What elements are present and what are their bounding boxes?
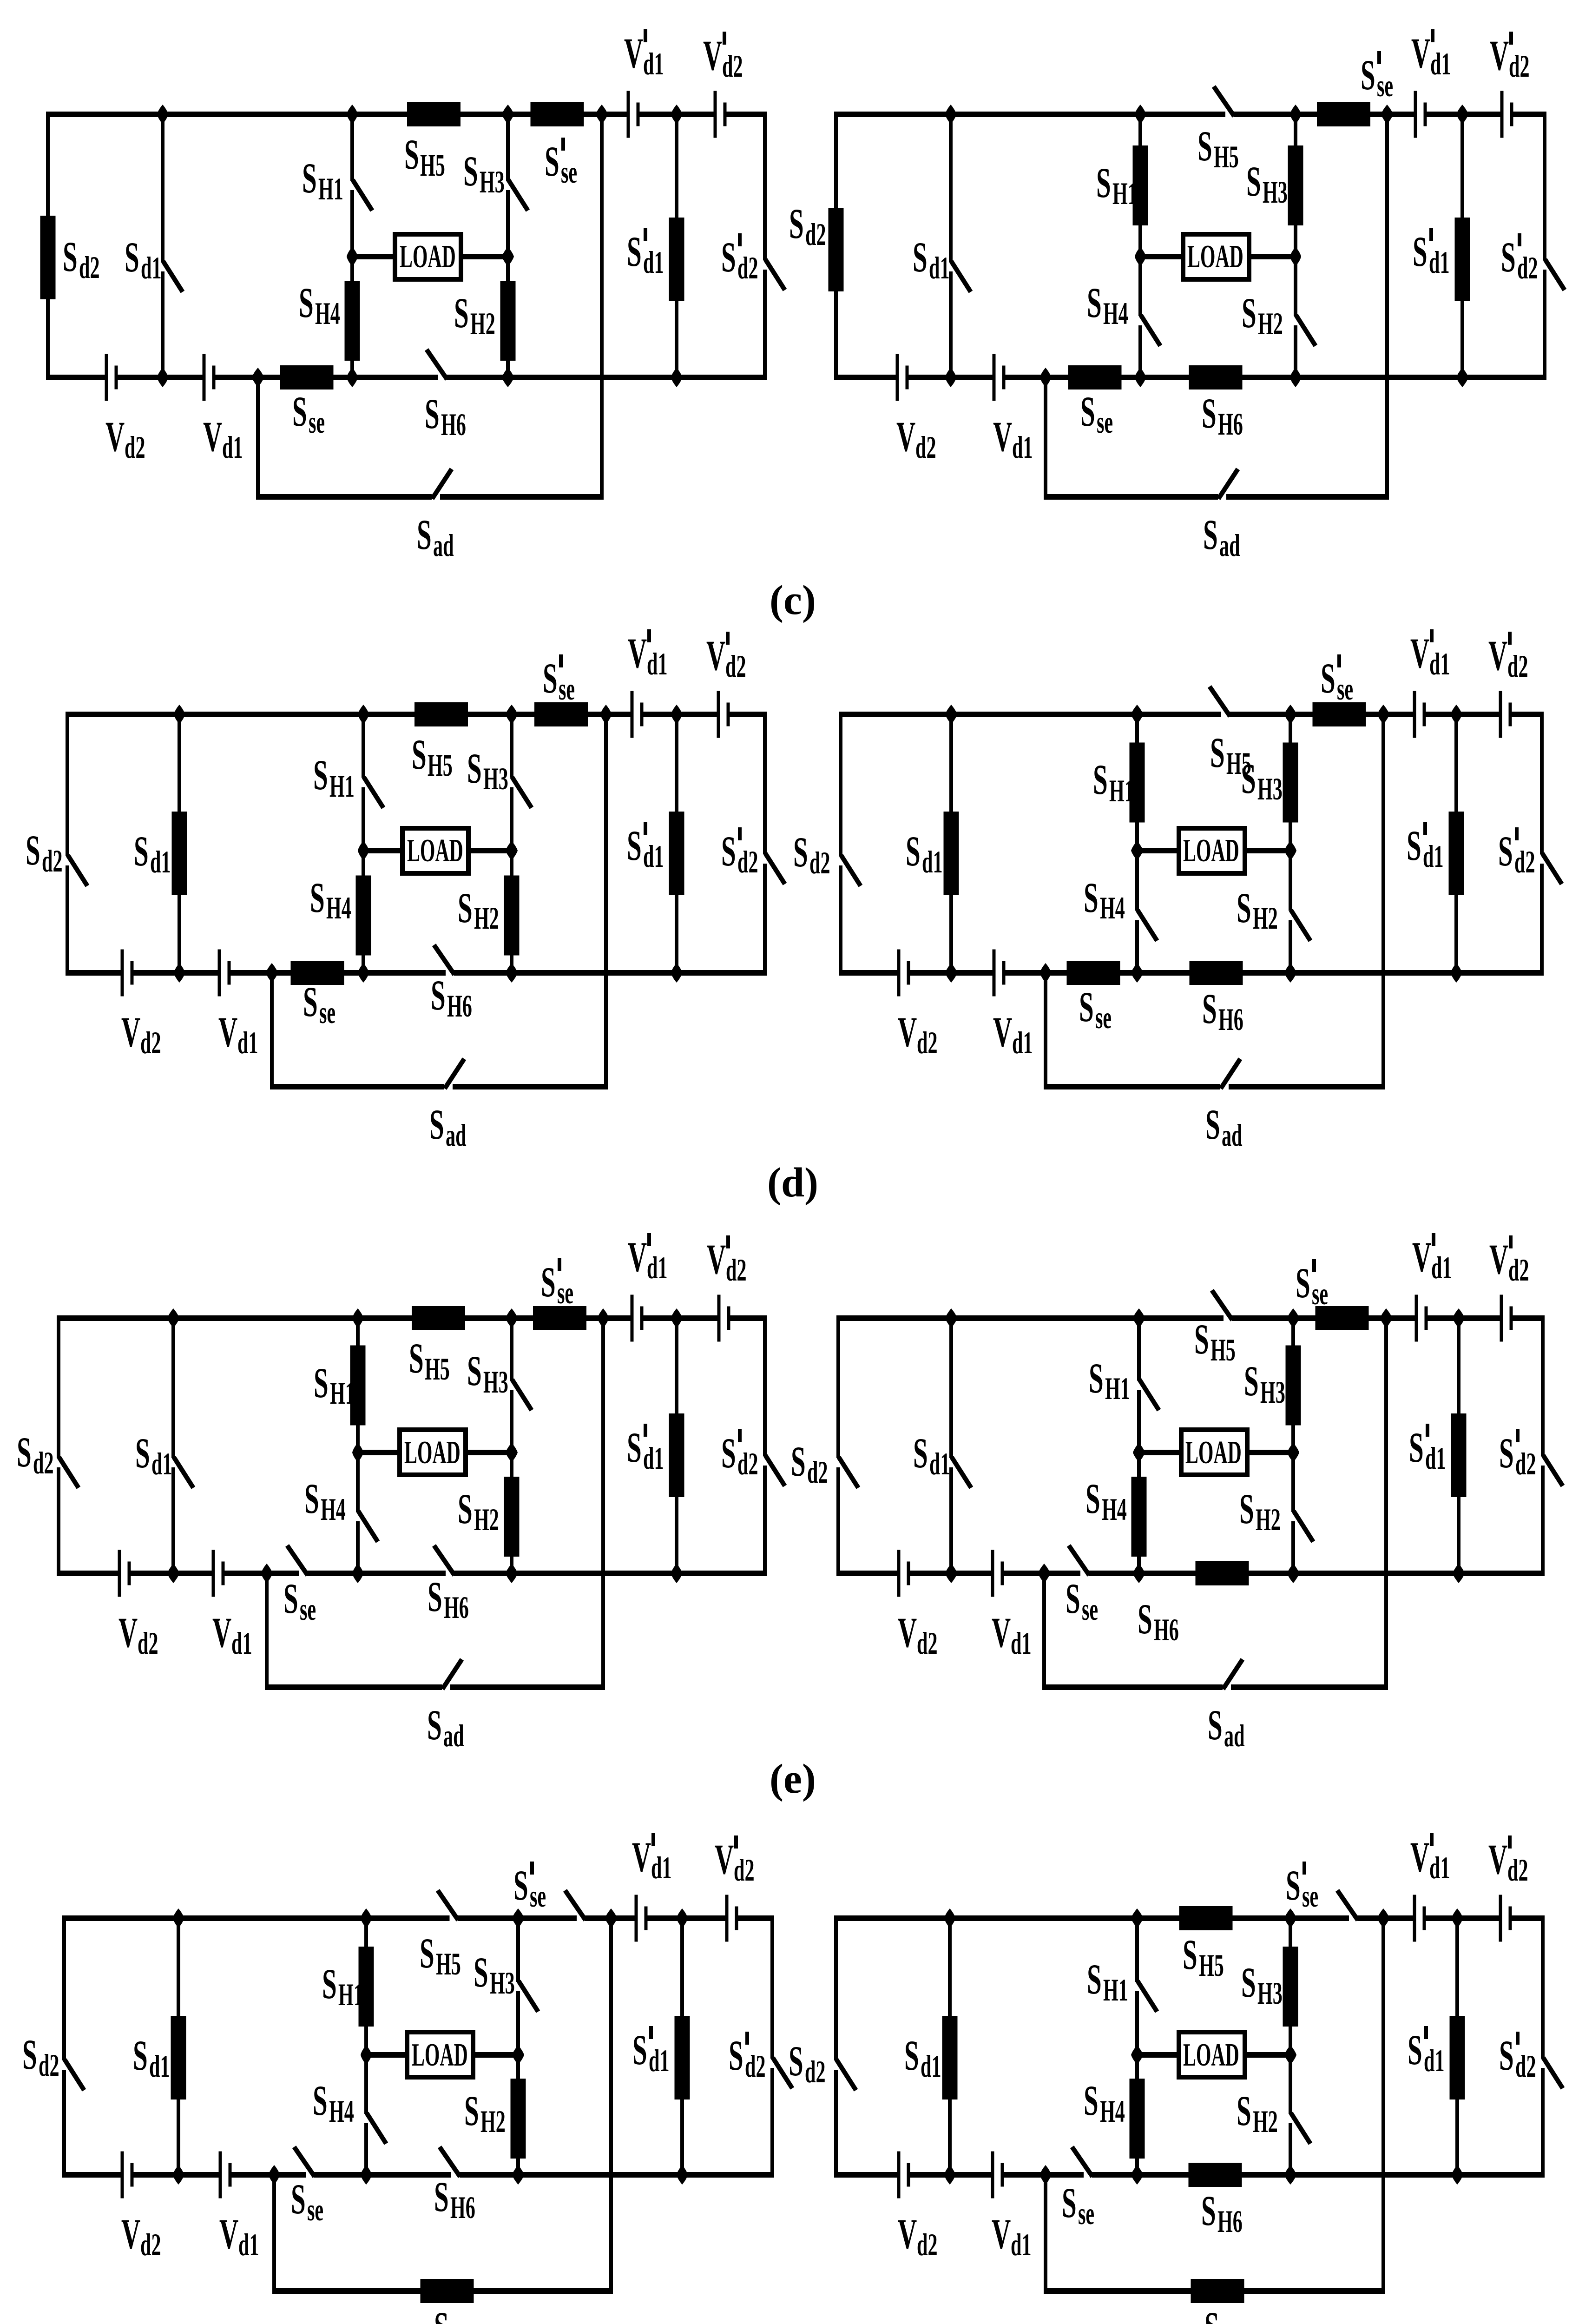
svg-text:d2: d2 xyxy=(140,1026,161,1061)
svg-text:LOAD: LOAD xyxy=(407,832,463,868)
svg-text:S: S xyxy=(1079,983,1094,1030)
svg-text:H3: H3 xyxy=(480,165,505,200)
svg-text:H4: H4 xyxy=(1100,891,1125,926)
svg-text:S: S xyxy=(543,654,558,702)
svg-text:d2: d2 xyxy=(737,251,758,286)
svg-text:S: S xyxy=(304,1475,319,1522)
svg-text:ad: ad xyxy=(1219,528,1240,563)
svg-text:d1: d1 xyxy=(1431,1251,1452,1286)
svg-text:H5: H5 xyxy=(1214,140,1239,175)
svg-text:S: S xyxy=(729,2032,743,2079)
svg-text:H6: H6 xyxy=(444,1591,469,1625)
svg-text:H1: H1 xyxy=(1112,177,1138,211)
svg-text:S: S xyxy=(431,971,446,1019)
svg-text:d2: d2 xyxy=(807,1455,828,1490)
svg-text:H6: H6 xyxy=(1218,1003,1243,1037)
svg-text:V: V xyxy=(632,1833,651,1881)
svg-text:LOAD: LOAD xyxy=(1187,238,1243,274)
svg-text:V: V xyxy=(896,413,915,460)
svg-text:S: S xyxy=(1407,822,1421,869)
svg-text:S: S xyxy=(1361,51,1375,99)
svg-text:d2: d2 xyxy=(1509,49,1530,84)
svg-text:se: se xyxy=(1082,1592,1098,1627)
svg-text:S: S xyxy=(1321,654,1335,702)
svg-text:S: S xyxy=(1296,1259,1310,1307)
svg-text:V: V xyxy=(121,2210,140,2258)
svg-text:V: V xyxy=(628,1233,647,1281)
svg-text:S: S xyxy=(464,2087,479,2134)
svg-text:S: S xyxy=(1237,884,1251,931)
svg-text:d2: d2 xyxy=(725,649,746,684)
svg-text:S: S xyxy=(313,751,328,799)
svg-text:H6: H6 xyxy=(447,989,472,1024)
svg-text:H2: H2 xyxy=(1253,2105,1278,2139)
svg-text:V: V xyxy=(624,29,643,77)
svg-text:H1: H1 xyxy=(329,769,355,804)
svg-text:S: S xyxy=(1241,1959,1256,2006)
svg-text:d1: d1 xyxy=(1012,430,1033,465)
svg-text:H2: H2 xyxy=(480,2105,506,2139)
svg-text:S: S xyxy=(420,1929,434,1977)
svg-text:se: se xyxy=(1312,1277,1328,1312)
svg-text:S: S xyxy=(1237,2087,1251,2134)
svg-text:S: S xyxy=(409,1334,424,1382)
svg-text:S: S xyxy=(789,2037,803,2085)
svg-text:LOAD: LOAD xyxy=(1185,1434,1242,1470)
svg-text:d1: d1 xyxy=(1430,47,1451,82)
svg-text:V: V xyxy=(118,1609,138,1656)
svg-text:S: S xyxy=(1084,874,1099,921)
svg-text:d1: d1 xyxy=(1429,1851,1450,1886)
svg-text:se: se xyxy=(309,405,325,440)
svg-text:ad: ad xyxy=(1224,1719,1245,1754)
svg-text:V: V xyxy=(898,1008,917,1056)
svg-text:se: se xyxy=(319,996,336,1030)
svg-text:H1: H1 xyxy=(318,172,343,207)
svg-text:S: S xyxy=(1066,1575,1080,1622)
svg-text:d2: d2 xyxy=(39,2048,59,2083)
svg-text:H3: H3 xyxy=(1260,1375,1285,1410)
svg-text:LOAD: LOAD xyxy=(400,238,456,274)
svg-text:S: S xyxy=(1194,1315,1209,1363)
svg-text:S: S xyxy=(545,138,559,185)
svg-text:(e): (e) xyxy=(770,1756,816,1802)
svg-text:H6: H6 xyxy=(441,408,466,442)
svg-text:V: V xyxy=(1488,632,1507,679)
svg-text:se: se xyxy=(530,1879,546,1914)
svg-text:V: V xyxy=(1410,629,1429,677)
svg-text:LOAD: LOAD xyxy=(404,1434,460,1470)
svg-text:S: S xyxy=(1084,2077,1099,2124)
svg-text:S: S xyxy=(63,233,78,280)
svg-text:d2: d2 xyxy=(737,845,758,880)
svg-text:V: V xyxy=(1489,1235,1508,1283)
svg-text:ad: ad xyxy=(446,1118,467,1153)
svg-text:(d): (d) xyxy=(767,1160,818,1206)
svg-text:H2: H2 xyxy=(474,901,499,936)
svg-text:d1: d1 xyxy=(647,647,668,682)
svg-text:d1: d1 xyxy=(1423,839,1444,874)
svg-text:LOAD: LOAD xyxy=(1183,832,1239,868)
svg-text:H3: H3 xyxy=(1263,175,1288,210)
svg-text:H1: H1 xyxy=(1109,774,1134,809)
svg-text:se: se xyxy=(307,2193,323,2228)
svg-text:H3: H3 xyxy=(1257,1976,1283,2011)
svg-text:V: V xyxy=(212,1609,231,1656)
svg-text:H2: H2 xyxy=(474,1503,499,1538)
svg-text:H5: H5 xyxy=(1210,1333,1236,1368)
svg-text:H3: H3 xyxy=(490,1966,515,2001)
svg-text:S: S xyxy=(458,1485,473,1532)
svg-text:H5: H5 xyxy=(428,748,453,783)
svg-text:d1: d1 xyxy=(929,1447,950,1482)
svg-text:d1: d1 xyxy=(1429,647,1450,682)
svg-text:S: S xyxy=(913,233,928,281)
svg-text:S: S xyxy=(474,1948,488,1996)
svg-text:se: se xyxy=(1337,672,1353,707)
svg-text:S: S xyxy=(1096,159,1111,206)
svg-text:S: S xyxy=(454,289,469,337)
svg-text:S: S xyxy=(1498,827,1513,875)
svg-text:S: S xyxy=(1205,1101,1220,1148)
svg-text:S: S xyxy=(1183,1931,1197,1978)
svg-text:V: V xyxy=(628,629,647,677)
svg-text:H1: H1 xyxy=(330,1376,355,1411)
svg-text:V: V xyxy=(992,1609,1011,1656)
svg-text:S: S xyxy=(541,1258,556,1306)
svg-text:se: se xyxy=(1302,1879,1318,1914)
svg-text:H6: H6 xyxy=(450,2191,475,2225)
svg-text:d2: d2 xyxy=(726,1253,747,1288)
svg-text:d2: d2 xyxy=(138,1626,158,1661)
svg-text:V: V xyxy=(898,1609,917,1656)
svg-text:V: V xyxy=(105,413,125,460)
svg-text:V: V xyxy=(1490,32,1509,79)
svg-text:d1: d1 xyxy=(1425,1441,1446,1476)
svg-text:V: V xyxy=(121,1008,140,1056)
svg-text:S: S xyxy=(627,822,642,869)
svg-text:H5: H5 xyxy=(420,148,445,183)
svg-text:d2: d2 xyxy=(805,218,826,252)
svg-text:H2: H2 xyxy=(1258,307,1283,342)
svg-text:d1: d1 xyxy=(1011,2228,1032,2263)
svg-text:H3: H3 xyxy=(483,1365,508,1400)
svg-text:S: S xyxy=(1201,2187,1216,2234)
svg-text:V: V xyxy=(703,32,722,79)
svg-text:d1: d1 xyxy=(237,1026,258,1061)
svg-text:S: S xyxy=(1204,2303,1219,2324)
svg-text:d2: d2 xyxy=(1515,2049,1536,2084)
svg-text:d1: d1 xyxy=(149,2049,170,2084)
svg-text:se: se xyxy=(557,1276,573,1311)
svg-text:d1: d1 xyxy=(238,2228,259,2263)
svg-text:ad: ad xyxy=(433,528,454,563)
svg-text:S: S xyxy=(1244,1357,1259,1405)
svg-text:H4: H4 xyxy=(1103,297,1128,331)
svg-text:d2: d2 xyxy=(917,1026,938,1061)
svg-text:d2: d2 xyxy=(745,2049,766,2084)
svg-text:d2: d2 xyxy=(1507,649,1528,684)
svg-text:se: se xyxy=(1377,69,1393,104)
svg-text:H6: H6 xyxy=(1217,2205,1243,2239)
svg-text:d2: d2 xyxy=(33,1446,54,1481)
svg-text:S: S xyxy=(133,2032,148,2079)
svg-text:d2: d2 xyxy=(917,2228,938,2263)
svg-text:S: S xyxy=(1242,289,1256,337)
svg-text:S: S xyxy=(904,2032,919,2079)
svg-text:d1: d1 xyxy=(222,430,243,465)
svg-text:S: S xyxy=(303,978,318,1025)
svg-text:d1: d1 xyxy=(141,251,162,286)
svg-text:S: S xyxy=(17,1428,32,1476)
svg-text:S: S xyxy=(1208,1701,1223,1749)
svg-text:V: V xyxy=(898,2210,917,2258)
svg-text:S: S xyxy=(417,511,432,558)
svg-text:d1: d1 xyxy=(922,845,943,880)
svg-text:V: V xyxy=(707,1235,726,1283)
svg-text:ad: ad xyxy=(450,2321,471,2324)
svg-text:S: S xyxy=(125,233,139,281)
svg-text:H6: H6 xyxy=(1154,1613,1179,1648)
svg-text:d2: d2 xyxy=(1507,1853,1528,1888)
svg-text:LOAD: LOAD xyxy=(412,2036,468,2073)
svg-text:S: S xyxy=(467,1347,482,1394)
svg-text:S: S xyxy=(299,279,314,326)
svg-text:S: S xyxy=(1246,158,1261,205)
svg-text:d1: d1 xyxy=(231,1626,252,1661)
svg-text:d1: d1 xyxy=(643,245,664,280)
svg-text:S: S xyxy=(1409,1424,1424,1471)
svg-text:H5: H5 xyxy=(436,1947,461,1982)
svg-text:S: S xyxy=(1197,122,1212,170)
svg-text:d1: d1 xyxy=(151,1447,172,1482)
svg-text:S: S xyxy=(1093,756,1108,803)
svg-text:d2: d2 xyxy=(917,1626,938,1661)
svg-text:S: S xyxy=(791,1438,806,1485)
svg-text:V: V xyxy=(706,632,725,679)
svg-text:se: se xyxy=(1078,2197,1094,2232)
svg-text:(c): (c) xyxy=(770,577,816,623)
svg-text:ad: ad xyxy=(443,1719,464,1754)
svg-text:S: S xyxy=(632,2026,647,2073)
svg-text:se: se xyxy=(1097,405,1113,440)
svg-text:H5: H5 xyxy=(1199,1948,1224,1983)
svg-text:S: S xyxy=(314,1359,329,1406)
svg-text:S: S xyxy=(1501,233,1516,281)
svg-text:d2: d2 xyxy=(1517,251,1538,286)
svg-text:S: S xyxy=(313,2077,328,2124)
svg-text:H4: H4 xyxy=(321,1492,346,1527)
svg-text:V: V xyxy=(219,2210,238,2258)
svg-text:se: se xyxy=(559,672,575,707)
svg-text:d1: d1 xyxy=(1012,1026,1033,1061)
svg-text:S: S xyxy=(1241,755,1256,802)
svg-text:H4: H4 xyxy=(1100,2094,1125,2129)
svg-text:S: S xyxy=(1138,1595,1152,1643)
svg-text:S: S xyxy=(429,1101,444,1148)
svg-text:S: S xyxy=(1087,279,1102,326)
svg-text:S: S xyxy=(1062,2179,1077,2226)
svg-text:V: V xyxy=(1488,1835,1507,1883)
svg-text:S: S xyxy=(434,2173,449,2220)
svg-text:S: S xyxy=(1080,388,1095,435)
svg-text:S: S xyxy=(1087,1955,1102,2003)
svg-text:V: V xyxy=(993,1008,1012,1056)
svg-text:H4: H4 xyxy=(315,297,340,331)
svg-text:d1: d1 xyxy=(1429,245,1450,280)
svg-text:d2: d2 xyxy=(1508,1253,1529,1288)
svg-text:S: S xyxy=(434,2303,449,2324)
svg-text:S: S xyxy=(793,828,808,876)
svg-text:se: se xyxy=(1095,1001,1112,1036)
svg-text:V: V xyxy=(203,413,222,460)
svg-text:H3: H3 xyxy=(483,762,508,797)
svg-text:se: se xyxy=(561,155,577,190)
svg-text:d2: d2 xyxy=(722,49,743,84)
svg-text:S: S xyxy=(458,884,473,931)
svg-text:S: S xyxy=(135,1429,150,1477)
svg-text:d2: d2 xyxy=(125,430,145,465)
svg-text:d2: d2 xyxy=(915,430,936,465)
svg-text:d2: d2 xyxy=(1515,1447,1536,1482)
svg-text:S: S xyxy=(721,1429,736,1477)
svg-text:S: S xyxy=(310,874,325,921)
svg-text:d1: d1 xyxy=(649,2044,670,2079)
svg-text:S: S xyxy=(283,1575,298,1622)
svg-text:d2: d2 xyxy=(42,844,63,879)
svg-text:V: V xyxy=(993,413,1012,460)
svg-text:H4: H4 xyxy=(329,2094,354,2129)
svg-text:d2: d2 xyxy=(737,1447,758,1482)
svg-text:d2: d2 xyxy=(140,2228,161,2263)
svg-text:S: S xyxy=(1089,1354,1104,1402)
svg-text:V: V xyxy=(992,2210,1011,2258)
svg-text:d1: d1 xyxy=(651,1851,672,1886)
svg-text:S: S xyxy=(513,1862,528,1909)
svg-text:S: S xyxy=(26,826,40,874)
svg-text:LOAD: LOAD xyxy=(1183,2036,1239,2073)
svg-text:se: se xyxy=(300,1592,316,1627)
svg-text:V: V xyxy=(1412,1233,1431,1281)
svg-text:H3: H3 xyxy=(1257,772,1283,807)
svg-text:S: S xyxy=(427,1701,442,1749)
svg-text:S: S xyxy=(291,2175,306,2223)
svg-text:S: S xyxy=(1408,2026,1422,2073)
svg-text:H2: H2 xyxy=(470,307,495,342)
svg-text:d1: d1 xyxy=(643,47,664,82)
svg-text:H4: H4 xyxy=(326,891,351,926)
svg-text:H2: H2 xyxy=(1253,901,1278,936)
svg-text:V: V xyxy=(1411,29,1430,77)
svg-text:S: S xyxy=(1085,1475,1100,1522)
svg-text:d1: d1 xyxy=(150,845,171,880)
svg-text:S: S xyxy=(789,200,804,247)
svg-text:S: S xyxy=(627,1424,642,1471)
svg-text:H6: H6 xyxy=(1218,407,1243,442)
svg-text:H1: H1 xyxy=(1105,1372,1130,1406)
svg-text:V: V xyxy=(218,1008,237,1056)
svg-text:d1: d1 xyxy=(643,1441,664,1476)
svg-text:S: S xyxy=(721,827,736,875)
svg-text:d2: d2 xyxy=(79,251,100,285)
svg-text:d2: d2 xyxy=(805,2055,826,2090)
svg-text:S: S xyxy=(22,2031,37,2078)
svg-text:S: S xyxy=(1239,1485,1254,1532)
svg-text:d1: d1 xyxy=(1424,2044,1445,2079)
svg-text:S: S xyxy=(627,228,642,275)
svg-text:H2: H2 xyxy=(1256,1503,1281,1538)
svg-text:S: S xyxy=(1210,729,1225,776)
svg-text:d1: d1 xyxy=(1011,1626,1032,1661)
svg-text:S: S xyxy=(404,131,419,178)
svg-text:d2: d2 xyxy=(1514,845,1535,880)
svg-text:d1: d1 xyxy=(929,251,950,286)
svg-text:d1: d1 xyxy=(921,2049,941,2084)
svg-text:S: S xyxy=(322,1960,337,2007)
svg-text:S: S xyxy=(1203,511,1218,558)
svg-text:H1: H1 xyxy=(338,1978,363,2013)
svg-text:S: S xyxy=(134,827,149,875)
svg-text:H1: H1 xyxy=(1103,1973,1128,2008)
svg-text:S: S xyxy=(721,233,736,281)
svg-text:d1: d1 xyxy=(647,1251,668,1286)
svg-text:S: S xyxy=(1202,985,1217,1032)
svg-text:V: V xyxy=(1410,1833,1429,1881)
svg-text:S: S xyxy=(913,1429,928,1477)
svg-text:S: S xyxy=(467,745,482,792)
svg-text:S: S xyxy=(1499,1429,1514,1477)
svg-text:S: S xyxy=(1499,2032,1514,2079)
svg-text:S: S xyxy=(1286,1862,1301,1909)
svg-text:d2: d2 xyxy=(734,1853,755,1888)
svg-text:S: S xyxy=(292,388,307,435)
svg-text:H4: H4 xyxy=(1102,1492,1127,1527)
svg-text:ad: ad xyxy=(1221,2321,1242,2324)
svg-text:S: S xyxy=(463,147,478,195)
svg-text:d1: d1 xyxy=(643,839,664,874)
svg-text:S: S xyxy=(302,154,317,202)
svg-text:S: S xyxy=(906,827,921,875)
svg-text:S: S xyxy=(1202,390,1217,437)
svg-text:S: S xyxy=(412,731,427,778)
svg-text:d2: d2 xyxy=(809,846,830,881)
svg-text:H5: H5 xyxy=(425,1352,450,1387)
svg-text:V: V xyxy=(715,1835,734,1883)
svg-text:S: S xyxy=(428,1573,442,1620)
svg-text:S: S xyxy=(425,390,440,437)
svg-text:ad: ad xyxy=(1222,1118,1243,1153)
svg-text:S: S xyxy=(1413,228,1428,275)
